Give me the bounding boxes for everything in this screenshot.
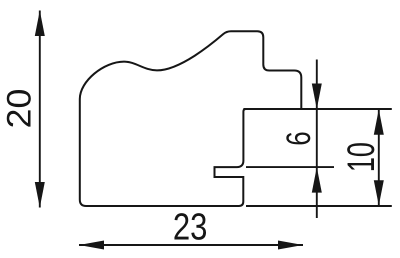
svg-text:10: 10 <box>339 142 382 172</box>
dimension 23 arrow right <box>278 241 303 250</box>
svg-text:6: 6 <box>280 131 318 145</box>
svg-text:20: 20 <box>1 89 39 129</box>
dimension 23 arrow left <box>79 241 104 250</box>
extension line groove top <box>246 166 334 168</box>
dimension 20 arrow down <box>35 182 45 208</box>
dimension 6 line <box>316 60 318 219</box>
dimension 20 line <box>39 11 41 208</box>
extension line rabbet top <box>243 108 391 110</box>
extension line bottom <box>246 205 392 207</box>
dimension 6 arrow down <box>312 84 322 110</box>
dimension 10 arrow down <box>374 180 384 205</box>
dimension 10 arrow up <box>374 109 384 135</box>
dimension 20 arrow up <box>35 11 45 37</box>
dimension 6 arrow up <box>312 167 322 193</box>
moulding profile outline <box>80 31 301 206</box>
dimension 10 line <box>378 109 380 205</box>
svg-text:23: 23 <box>173 206 208 248</box>
dimension 23 line <box>79 244 303 246</box>
